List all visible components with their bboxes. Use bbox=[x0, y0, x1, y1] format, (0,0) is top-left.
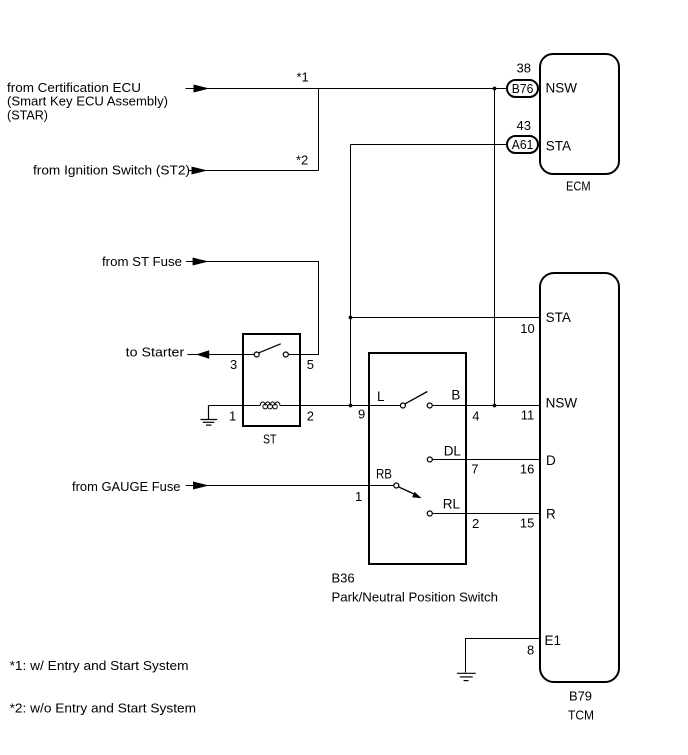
node NSW junction at B76 bbox=[493, 87, 497, 91]
node STA junction bbox=[349, 316, 353, 320]
relay switch contact 3 bbox=[254, 352, 259, 357]
svg-text:1: 1 bbox=[229, 409, 236, 424]
svg-text:RL: RL bbox=[443, 497, 461, 512]
wire to Starter from relay pin 3 bbox=[187, 354, 243, 356]
svg-text:A61: A61 bbox=[512, 137, 534, 152]
svg-text:to Starter: to Starter bbox=[126, 345, 185, 360]
svg-text:*1: w/ Entry and Start System: *1: w/ Entry and Start System bbox=[10, 658, 189, 673]
switch contact L bbox=[400, 403, 405, 408]
arrow from Ignition Switch bbox=[192, 167, 208, 175]
label "from Certification ECU (Smart Key ECU Assembly) (STAR)" bbox=[7, 80, 168, 123]
svg-text:Park/Neutral Position Switch: Park/Neutral Position Switch bbox=[332, 589, 499, 604]
wire relay pin5 internal bbox=[288, 354, 300, 356]
svg-text:B79: B79 bbox=[569, 689, 592, 704]
svg-text:ECM: ECM bbox=[566, 178, 591, 193]
B36 box bbox=[369, 353, 466, 564]
switch blade RB with arrow bbox=[399, 487, 414, 494]
svg-text:B36: B36 bbox=[332, 571, 355, 586]
svg-text:3: 3 bbox=[230, 357, 237, 372]
svg-text:D: D bbox=[546, 453, 556, 468]
svg-text:E1: E1 bbox=[545, 633, 562, 648]
wire from Ignition Switch to vertical bbox=[189, 170, 319, 172]
switch contact B bbox=[427, 403, 432, 408]
svg-text:7: 7 bbox=[471, 462, 478, 477]
wire vertical *1 to *2 merge bbox=[318, 89, 320, 171]
svg-text:(Smart Key ECU Assembly): (Smart Key ECU Assembly) bbox=[7, 94, 168, 109]
TCM box bbox=[540, 273, 619, 682]
svg-text:*2: w/o Entry and Start System: *2: w/o Entry and Start System bbox=[10, 700, 197, 715]
wire STA from A61 bbox=[351, 144, 508, 146]
svg-text:STA: STA bbox=[546, 139, 571, 154]
switch blade L-B bbox=[405, 392, 427, 404]
svg-text:TCM: TCM bbox=[568, 708, 594, 723]
wire from ST Fuse to relay pin 5 bbox=[186, 262, 319, 355]
svg-text:RB: RB bbox=[376, 467, 392, 482]
svg-text:2: 2 bbox=[307, 409, 314, 424]
arrow from GAUGE Fuse bbox=[193, 482, 209, 490]
wire relay pin3 internal bbox=[243, 354, 254, 356]
svg-text:R: R bbox=[546, 507, 556, 522]
wire ground to relay pin 1 bbox=[209, 405, 261, 407]
svg-text:from Certification ECU: from Certification ECU bbox=[7, 80, 141, 95]
svg-text:NSW: NSW bbox=[546, 81, 578, 96]
wire from GAUGE Fuse to RB bbox=[186, 485, 394, 487]
svg-text:15: 15 bbox=[520, 516, 534, 531]
svg-text:(STAR): (STAR) bbox=[7, 107, 48, 122]
ECM box bbox=[540, 54, 619, 174]
switch contact DL bbox=[427, 457, 432, 462]
svg-text:*1: *1 bbox=[297, 69, 309, 84]
svg-text:10: 10 bbox=[520, 321, 534, 336]
wire relay pin 2 to B36 pin 9 bbox=[280, 405, 401, 407]
svg-text:38: 38 bbox=[517, 60, 531, 75]
svg-text:43: 43 bbox=[517, 118, 531, 133]
svg-text:B: B bbox=[451, 388, 460, 403]
arrow from ST Fuse bbox=[193, 258, 209, 266]
arrow from Certification ECU bbox=[194, 85, 210, 93]
svg-text:2: 2 bbox=[472, 516, 479, 531]
wire RL to TCM pin 15 bbox=[432, 513, 540, 515]
svg-text:1: 1 bbox=[355, 489, 362, 504]
relay switch blade bbox=[259, 344, 281, 353]
wire NSW from Certification ECU to B76 bbox=[186, 88, 508, 90]
connector pin A61 bbox=[507, 136, 538, 153]
relay ST box bbox=[243, 334, 300, 426]
ground (E1) bbox=[457, 673, 476, 680]
switch contact RB bbox=[394, 483, 399, 488]
svg-text:from Ignition Switch (ST2): from Ignition Switch (ST2) bbox=[33, 162, 190, 177]
svg-text:from ST Fuse: from ST Fuse bbox=[102, 254, 182, 269]
ground (relay coil) bbox=[201, 406, 218, 426]
svg-text:from GAUGE Fuse: from GAUGE Fuse bbox=[72, 479, 181, 494]
wire NSW vertical B76 to TCM bbox=[494, 89, 496, 406]
wire E1 to ground bbox=[466, 639, 541, 673]
wire DL to TCM pin 16 bbox=[432, 459, 540, 461]
svg-text:16: 16 bbox=[520, 462, 534, 477]
svg-text:NSW: NSW bbox=[546, 396, 578, 411]
connector pin B76 bbox=[507, 80, 538, 97]
wire STA to TCM pin 10 bbox=[351, 317, 541, 319]
node NSW junction at TCM row bbox=[493, 404, 497, 408]
switch contact RL bbox=[427, 511, 432, 516]
svg-text:11: 11 bbox=[521, 408, 535, 423]
svg-text:L: L bbox=[377, 389, 385, 404]
svg-text:STA: STA bbox=[546, 310, 571, 325]
wire STA vertical bbox=[350, 145, 352, 406]
svg-text:5: 5 bbox=[307, 357, 314, 372]
svg-text:B76: B76 bbox=[512, 81, 534, 96]
svg-text:9: 9 bbox=[358, 406, 365, 421]
svg-text:8: 8 bbox=[527, 643, 534, 658]
wire B contact to TCM pin 11 bbox=[432, 405, 540, 407]
svg-text:ST: ST bbox=[263, 432, 277, 447]
arrow to Starter bbox=[196, 350, 209, 359]
svg-text:4: 4 bbox=[472, 409, 479, 424]
relay coil bbox=[260, 402, 280, 406]
svg-text:DL: DL bbox=[444, 444, 462, 459]
relay switch contact 5 bbox=[283, 352, 288, 357]
svg-text:*2: *2 bbox=[296, 153, 308, 168]
node STA/coil junction bbox=[349, 404, 353, 408]
